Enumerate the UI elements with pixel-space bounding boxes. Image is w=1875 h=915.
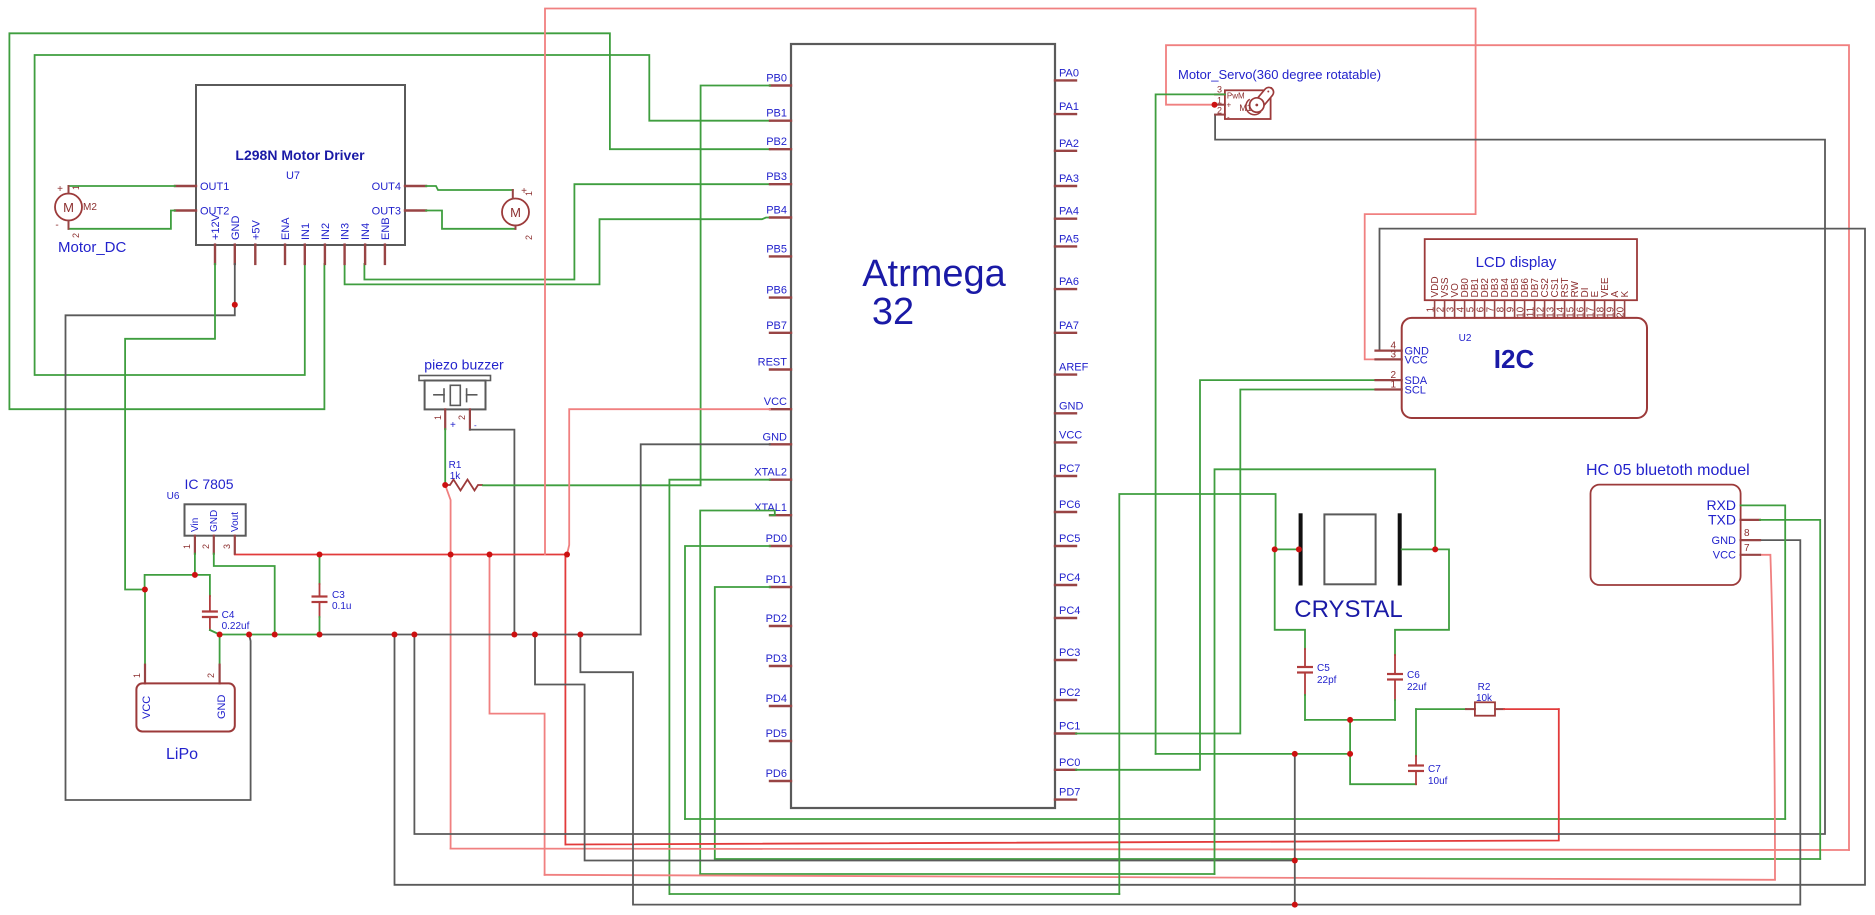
svg-text:PA2: PA2 bbox=[1059, 138, 1079, 150]
pin +12V (L298N bottom) bbox=[214, 245, 216, 264]
svg-text:1: 1 bbox=[1217, 95, 1222, 105]
pin +5V (L298N bottom) bbox=[254, 245, 256, 264]
svg-text:8: 8 bbox=[1744, 528, 1750, 539]
svg-text:XTAL1: XTAL1 bbox=[754, 502, 787, 514]
pin Vin (7805) bbox=[194, 536, 196, 554]
svg-text:PC4: PC4 bbox=[1059, 605, 1080, 617]
svg-text:CRYSTAL: CRYSTAL bbox=[1294, 596, 1402, 623]
motor M3 (right) bbox=[502, 199, 529, 226]
svg-text:U7: U7 bbox=[286, 170, 300, 182]
pin PB6 (ATmega left) bbox=[770, 296, 791, 298]
svg-text:7: 7 bbox=[1744, 543, 1750, 554]
svg-text:2: 2 bbox=[71, 233, 81, 238]
svg-text:L298N Motor Driver: L298N Motor Driver bbox=[235, 147, 365, 163]
LCD pin 6 DB2 bbox=[1484, 300, 1486, 318]
svg-text:10k: 10k bbox=[1476, 693, 1493, 704]
svg-text:2: 2 bbox=[206, 673, 216, 678]
svg-text:PB0: PB0 bbox=[766, 73, 787, 85]
svg-text:OUT3: OUT3 bbox=[372, 206, 401, 218]
HC05 pin TXD bbox=[1741, 519, 1760, 521]
svg-text:C4: C4 bbox=[222, 610, 235, 621]
svg-text:PC7: PC7 bbox=[1059, 463, 1080, 475]
LCD pin 18 VEE bbox=[1604, 300, 1606, 318]
svg-text:10uf: 10uf bbox=[1428, 776, 1448, 787]
svg-text:PA6: PA6 bbox=[1059, 276, 1079, 288]
svg-text:+: + bbox=[57, 184, 63, 195]
LCD pin 1 VDD bbox=[1434, 300, 1436, 318]
pin PD5 (ATmega left) bbox=[770, 740, 791, 742]
svg-text:PD5: PD5 bbox=[766, 728, 787, 740]
LCD pin 15 RW bbox=[1574, 300, 1576, 318]
gray bus I : I2C GND bbox=[395, 229, 1866, 885]
svg-text:PA3: PA3 bbox=[1059, 173, 1079, 185]
wire crystal left leg bbox=[1275, 548, 1299, 550]
pin PB0 (ATmega left) bbox=[770, 84, 791, 86]
wire VCC pin of ATmega down to rail bbox=[567, 409, 770, 554]
capacitor C7 10uf bbox=[1415, 709, 1417, 756]
capacitor C5 plates bbox=[1297, 666, 1313, 668]
svg-text:PC1: PC1 bbox=[1059, 721, 1080, 733]
GND rail (gray part) bbox=[320, 634, 641, 636]
LCD pin 10 DB6 bbox=[1524, 300, 1526, 318]
LCD pin 8 DB4 bbox=[1504, 300, 1506, 318]
svg-text:-: - bbox=[1227, 113, 1230, 122]
svg-text:22pf: 22pf bbox=[1317, 675, 1337, 686]
svg-text:1: 1 bbox=[182, 544, 192, 549]
red top wire rail to I2C VCC bbox=[545, 9, 1476, 555]
motor M2 bbox=[55, 194, 82, 221]
wire OUT3 to right motor pin2 bbox=[426, 211, 516, 229]
svg-text:PC3: PC3 bbox=[1059, 647, 1080, 659]
wire to C7 bbox=[1350, 754, 1416, 784]
svg-text:20: 20 bbox=[1615, 306, 1626, 318]
svg-text:piezo buzzer: piezo buzzer bbox=[424, 357, 504, 373]
bus G (XTAL1) horizontal bbox=[700, 873, 1214, 875]
svg-text:PA1: PA1 bbox=[1059, 101, 1079, 113]
pin PD7 (ATmega right) bbox=[1055, 798, 1076, 800]
wire R1 junction down to bus D bbox=[445, 485, 450, 849]
svg-text:I2C: I2C bbox=[1494, 344, 1535, 374]
capacitor C5 22pf bbox=[1304, 649, 1306, 667]
resistor R2 10k bbox=[1416, 708, 1466, 710]
svg-text:PC5: PC5 bbox=[1059, 533, 1080, 545]
pin PB5 (ATmega left) bbox=[770, 255, 791, 257]
LCD pin 12 CS2 bbox=[1544, 300, 1546, 318]
svg-text:M: M bbox=[510, 205, 521, 220]
svg-text:C7: C7 bbox=[1428, 764, 1441, 775]
svg-text:-: - bbox=[55, 220, 58, 231]
wire XTAL2 down to bus J bbox=[669, 480, 770, 894]
capacitor C7 plates bbox=[1408, 764, 1424, 766]
svg-text:PD1: PD1 bbox=[766, 574, 787, 586]
svg-text:Motor_DC: Motor_DC bbox=[58, 239, 127, 256]
pin GND (7805) bbox=[213, 536, 215, 554]
svg-text:VCC: VCC bbox=[1405, 354, 1428, 366]
svg-text:1k: 1k bbox=[450, 471, 462, 482]
wire XTAL2 net to crystal left bbox=[1119, 494, 1275, 894]
wire rail corner down to bus C bbox=[564, 555, 566, 845]
svg-text:Vout: Vout bbox=[230, 512, 241, 532]
wire ATmega GND to rail bbox=[641, 444, 770, 634]
wire IN4 to PB3 bbox=[364, 184, 770, 279]
wire Vin net bbox=[194, 554, 196, 575]
svg-text:2: 2 bbox=[201, 544, 211, 549]
I2C pin 1 SCL bbox=[1376, 388, 1402, 390]
LCD pin 7 DB3 bbox=[1494, 300, 1496, 318]
svg-text:0.1u: 0.1u bbox=[332, 601, 351, 612]
I2C pin 4 GND bbox=[1376, 350, 1402, 352]
svg-text:HC 05 bluetoth moduel: HC 05 bluetoth moduel bbox=[1586, 462, 1750, 479]
svg-text:PC2: PC2 bbox=[1059, 687, 1080, 699]
pin XTAL2 (ATmega left) bbox=[770, 479, 791, 481]
capacitor C3 0.1u bbox=[319, 555, 321, 585]
svg-text:+5V: +5V bbox=[250, 219, 262, 240]
servo M1 bbox=[1225, 90, 1271, 119]
wire PC1 to SCL bbox=[1076, 390, 1376, 734]
pin OUT4 bbox=[405, 185, 426, 187]
bus C horizontal to R2 bbox=[565, 709, 1558, 844]
capacitor C6 plates bbox=[1387, 673, 1403, 675]
LCD pin 19 A bbox=[1614, 300, 1616, 318]
svg-text:VCC: VCC bbox=[141, 696, 153, 719]
gray bus B : servo pin2 bbox=[414, 115, 1825, 834]
pin ENB (L298N bottom) bbox=[384, 245, 386, 264]
bus A (PD0-RXD) horizontal bbox=[685, 818, 1785, 820]
svg-text:ENB: ENB bbox=[380, 217, 392, 240]
pin IN2 (L298N bottom) bbox=[324, 245, 326, 264]
bus E (PD1-TXD) horizontal bbox=[715, 858, 1820, 860]
svg-text:+: + bbox=[1227, 101, 1232, 110]
pin PD1 (ATmega left) bbox=[770, 586, 791, 588]
svg-text:GND: GND bbox=[216, 695, 228, 720]
LCD pin 16 DI bbox=[1584, 300, 1586, 318]
pin PD4 (ATmega left) bbox=[770, 705, 791, 707]
svg-text:PD3: PD3 bbox=[766, 653, 787, 665]
piezo buzzer bbox=[419, 376, 491, 381]
pin ENA (L298N bottom) bbox=[284, 245, 286, 264]
wire +12V pin to LiPo VCC net bbox=[125, 264, 215, 590]
svg-text:+: + bbox=[450, 420, 456, 431]
pin PA5 (ATmega right) bbox=[1055, 245, 1076, 247]
wire TXD to bus E bbox=[1760, 520, 1820, 859]
junction dots bbox=[442, 482, 448, 488]
svg-text:C5: C5 bbox=[1317, 663, 1330, 674]
svg-text:PwM: PwM bbox=[1227, 92, 1245, 101]
svg-text:IC 7805: IC 7805 bbox=[184, 476, 233, 492]
pin PD0 (ATmega left) bbox=[770, 545, 791, 547]
pin GND (L298N bottom) bbox=[234, 245, 236, 264]
pin PC4 (ATmega right) bbox=[1055, 584, 1076, 586]
pin PC2 (ATmega right) bbox=[1055, 699, 1076, 701]
svg-text:GND: GND bbox=[763, 431, 788, 443]
capacitor C4 plates bbox=[202, 610, 218, 612]
I2C pin 3 VCC bbox=[1376, 358, 1402, 360]
svg-text:Atrmega: Atrmega bbox=[862, 253, 1006, 295]
servo pin 1 bbox=[1215, 104, 1225, 106]
LCD pin 11 DB7 bbox=[1534, 300, 1536, 318]
wire XTAL1 net to crystal right bbox=[1215, 469, 1436, 874]
pin VCC (ATmega left) bbox=[770, 408, 791, 410]
pin OUT2 bbox=[175, 209, 196, 211]
svg-text:PA7: PA7 bbox=[1059, 320, 1079, 332]
svg-text:3: 3 bbox=[1390, 349, 1396, 360]
svg-text:1: 1 bbox=[524, 191, 534, 196]
pin PC6 (ATmega right) bbox=[1055, 511, 1076, 513]
svg-text:U6: U6 bbox=[167, 491, 180, 502]
svg-text:PB1: PB1 bbox=[766, 108, 787, 120]
svg-text:SCL: SCL bbox=[1405, 385, 1426, 397]
pin VCC (ATmega right) bbox=[1055, 441, 1076, 443]
resistor R1 1k bbox=[445, 480, 483, 491]
gray bus F : crystal gnd bbox=[535, 635, 1295, 861]
svg-text:LiPo: LiPo bbox=[166, 746, 198, 763]
svg-text:1: 1 bbox=[433, 415, 443, 420]
svg-text:Vin: Vin bbox=[190, 518, 201, 532]
crystal Y1 bbox=[1299, 513, 1303, 585]
svg-text:PD2: PD2 bbox=[766, 613, 787, 625]
pin PC4 (ATmega right) bbox=[1055, 617, 1076, 619]
svg-text:REST: REST bbox=[758, 357, 788, 369]
svg-text:PC0: PC0 bbox=[1059, 757, 1080, 769]
pin PA1 (ATmega right) bbox=[1055, 113, 1076, 115]
pin PD6 (ATmega left) bbox=[770, 780, 791, 782]
wire IN2 to PB2 outer green loop bbox=[9, 33, 770, 409]
wire 7805 GND to rail bbox=[214, 554, 275, 635]
svg-text:PB2: PB2 bbox=[766, 136, 787, 148]
wire PD1 down to bus E bbox=[715, 587, 770, 859]
svg-text:PA5: PA5 bbox=[1059, 233, 1079, 245]
pin PB3 (ATmega left) bbox=[770, 183, 791, 185]
wire OUT4 to right motor pin1 bbox=[426, 186, 513, 190]
svg-text:32: 32 bbox=[872, 291, 914, 333]
svg-text:OUT1: OUT1 bbox=[200, 181, 229, 193]
VCC rail bbox=[235, 554, 567, 556]
svg-text:PD0: PD0 bbox=[766, 533, 787, 545]
servo pin 3 PwM bbox=[1215, 93, 1225, 95]
pin PC1 (ATmega right) bbox=[1055, 732, 1076, 734]
svg-text:XTAL2: XTAL2 bbox=[754, 467, 787, 479]
svg-text:2: 2 bbox=[1217, 106, 1222, 116]
buzzer pin 1 bbox=[444, 409, 446, 429]
pin PB2 (ATmega left) bbox=[770, 148, 791, 150]
svg-text:PB6: PB6 bbox=[766, 285, 787, 297]
svg-text:ENA: ENA bbox=[280, 217, 292, 240]
svg-text:VCC: VCC bbox=[1059, 429, 1082, 441]
LiPo battery bbox=[136, 683, 234, 731]
wire rail down to bus H jog bbox=[490, 555, 545, 875]
wire LiPo VCC bbox=[144, 590, 146, 665]
capacitor C3 plates bbox=[312, 595, 328, 597]
wire R1 to PB0 vertical bbox=[483, 86, 770, 486]
LCD pin 17 E bbox=[1594, 300, 1596, 318]
svg-text:AREF: AREF bbox=[1059, 362, 1089, 374]
red wire servo supply (bus D) bbox=[1166, 45, 1849, 850]
wire OUT2 to M2 pin2 bbox=[69, 211, 176, 229]
pin PA6 (ATmega right) bbox=[1055, 288, 1076, 290]
pin PA4 (ATmega right) bbox=[1055, 217, 1076, 219]
svg-text:2: 2 bbox=[524, 235, 534, 240]
pin PC3 (ATmega right) bbox=[1055, 659, 1076, 661]
wire crystal right leg bbox=[1395, 549, 1449, 655]
svg-text:U2: U2 bbox=[1459, 333, 1472, 344]
LCD pin 5 DB1 bbox=[1474, 300, 1476, 318]
svg-text:M1: M1 bbox=[1239, 103, 1252, 113]
pin PA3 (ATmega right) bbox=[1055, 185, 1076, 187]
wire crystal bottom join bbox=[1305, 719, 1395, 721]
svg-text:PB3: PB3 bbox=[766, 171, 787, 183]
pin PB4 (ATmega left) bbox=[770, 216, 791, 218]
pin Vout (7805) bbox=[234, 536, 236, 554]
svg-text:IN3: IN3 bbox=[340, 223, 352, 240]
svg-text:C6: C6 bbox=[1407, 670, 1420, 681]
svg-text:PD6: PD6 bbox=[766, 768, 787, 780]
svg-text:1: 1 bbox=[1390, 380, 1396, 391]
svg-text:2: 2 bbox=[457, 415, 467, 420]
wire buzzer pin1 down to R1 bbox=[444, 429, 446, 485]
HC05 pin VCC 7 bbox=[1741, 554, 1760, 556]
svg-text:3: 3 bbox=[222, 544, 232, 549]
pin PD2 (ATmega left) bbox=[770, 625, 791, 627]
wire XTAL1 down to bus G bbox=[700, 511, 775, 875]
wire IN1 to PB1 inner green loop bbox=[35, 55, 770, 375]
pin XTAL1 (ATmega left) bbox=[770, 514, 791, 516]
bus J (XTAL2) horizontal bbox=[669, 893, 1119, 895]
wire crystal gnd bottom bbox=[1156, 753, 1351, 755]
pin OUT3 bbox=[405, 209, 426, 211]
pin GND (ATmega left) bbox=[770, 443, 791, 445]
pin PB7 (ATmega left) bbox=[770, 332, 791, 334]
pin PD3 (ATmega left) bbox=[770, 665, 791, 667]
svg-text:PB5: PB5 bbox=[766, 243, 787, 255]
svg-text:R1: R1 bbox=[449, 460, 462, 471]
pin PC7 (ATmega right) bbox=[1055, 475, 1076, 477]
IC 7805 U6 bbox=[185, 504, 246, 535]
wire servo PwM bbox=[1156, 94, 1225, 754]
pin REST (ATmega left) bbox=[770, 368, 791, 370]
wire RXD to bus A bbox=[1741, 505, 1786, 819]
gray bus K : HC05 GND bbox=[580, 540, 1800, 905]
svg-text:PB4: PB4 bbox=[766, 205, 787, 217]
LCD pin 20 K bbox=[1624, 300, 1626, 318]
svg-text:-: - bbox=[474, 421, 477, 430]
svg-text:PC6: PC6 bbox=[1059, 499, 1080, 511]
junction L298N GND wire bbox=[232, 302, 238, 308]
svg-text:GND: GND bbox=[1059, 400, 1084, 412]
capacitor C4 0.22uf bbox=[209, 596, 211, 612]
svg-text:VCC: VCC bbox=[1713, 550, 1736, 562]
wire PC0 to SDA bbox=[1076, 380, 1376, 770]
svg-text:GND: GND bbox=[230, 216, 242, 240]
servo pin 2 bbox=[1215, 114, 1225, 116]
gray vertical crystal-bottom to bus K bbox=[1294, 754, 1296, 905]
capacitor C6 22uf bbox=[1394, 655, 1396, 674]
svg-text:LCD display: LCD display bbox=[1476, 254, 1557, 271]
L298N motor driver U7 bbox=[196, 85, 405, 245]
svg-text:Motor_Servo(360 degree rotatab: Motor_Servo(360 degree rotatable) bbox=[1178, 67, 1381, 82]
svg-text:R2: R2 bbox=[1478, 682, 1491, 693]
svg-text:PD7: PD7 bbox=[1059, 787, 1080, 799]
svg-text:VCC: VCC bbox=[764, 396, 787, 408]
svg-text:OUT4: OUT4 bbox=[372, 181, 401, 193]
svg-text:IN4: IN4 bbox=[360, 223, 372, 240]
LCD pin 4 DB0 bbox=[1464, 300, 1466, 318]
svg-text:TXD: TXD bbox=[1708, 512, 1736, 528]
pin PC5 (ATmega right) bbox=[1055, 545, 1076, 547]
pin IN3 (L298N bottom) bbox=[343, 245, 345, 264]
wire buzzer pin2 to GND rail bbox=[470, 430, 515, 635]
svg-text:PA0: PA0 bbox=[1059, 67, 1079, 79]
I2C pin 2 SDA bbox=[1376, 379, 1402, 381]
pin PA7 (ATmega right) bbox=[1055, 332, 1076, 334]
LCD pin 13 CS1 bbox=[1554, 300, 1556, 318]
I2C module U2 bbox=[1402, 318, 1647, 418]
svg-text:GND: GND bbox=[209, 510, 220, 532]
svg-text:PC4: PC4 bbox=[1059, 572, 1080, 584]
svg-text:1: 1 bbox=[132, 673, 142, 678]
svg-text:PA4: PA4 bbox=[1059, 206, 1079, 218]
pin PA2 (ATmega right) bbox=[1055, 150, 1076, 152]
wire L298N GND loop bbox=[66, 264, 251, 800]
pin PA0 (ATmega right) bbox=[1055, 79, 1076, 81]
pin IN1 (L298N bottom) bbox=[304, 245, 306, 264]
svg-text:PD4: PD4 bbox=[766, 693, 787, 705]
svg-text:0.22uf: 0.22uf bbox=[222, 621, 250, 632]
wire OUT1 to M2 pin1 bbox=[69, 185, 176, 187]
HC-05 module bbox=[1591, 485, 1741, 585]
svg-text:C3: C3 bbox=[332, 590, 345, 601]
GND rail (green part) bbox=[220, 634, 320, 636]
wire PD0 down to bus A bbox=[685, 546, 770, 819]
LCD display bbox=[1425, 239, 1637, 300]
pin PB1 (ATmega left) bbox=[770, 119, 791, 121]
pin PC0 (ATmega right) bbox=[1055, 769, 1076, 771]
bus H horizontal to HC05 VCC bbox=[545, 875, 1775, 880]
buzzer pin 2 bbox=[469, 409, 471, 429]
LCD pin 9 DB5 bbox=[1514, 300, 1516, 318]
svg-text:3: 3 bbox=[1217, 84, 1222, 94]
pin OUT1 bbox=[175, 185, 196, 187]
pin GND (ATmega right) bbox=[1055, 412, 1076, 414]
svg-text:K: K bbox=[1620, 291, 1631, 298]
pin AREF (ATmega right) bbox=[1055, 373, 1076, 375]
svg-text:M: M bbox=[63, 200, 74, 215]
svg-text:IN1: IN1 bbox=[300, 223, 312, 240]
pin IN4 (L298N bottom) bbox=[364, 245, 366, 264]
svg-text:GND: GND bbox=[1712, 535, 1737, 547]
LCD pin 3 VO bbox=[1454, 300, 1456, 318]
LCD pin 14 RST bbox=[1564, 300, 1566, 318]
svg-text:IN2: IN2 bbox=[320, 223, 332, 240]
wire LiPo GND bbox=[219, 635, 221, 665]
HC05 pin GND 8 bbox=[1741, 539, 1760, 541]
svg-text:+12V: +12V bbox=[210, 213, 222, 240]
wire IN3 to PB4 bbox=[345, 218, 770, 285]
bus D horizontal (VCC) bbox=[451, 849, 1849, 850]
svg-text:M2: M2 bbox=[83, 202, 97, 213]
svg-text:PB7: PB7 bbox=[766, 320, 787, 332]
LCD pin 2 VSS bbox=[1444, 300, 1446, 318]
svg-text:22uf: 22uf bbox=[1407, 682, 1427, 693]
ATmega32 chip U1 bbox=[791, 44, 1055, 808]
